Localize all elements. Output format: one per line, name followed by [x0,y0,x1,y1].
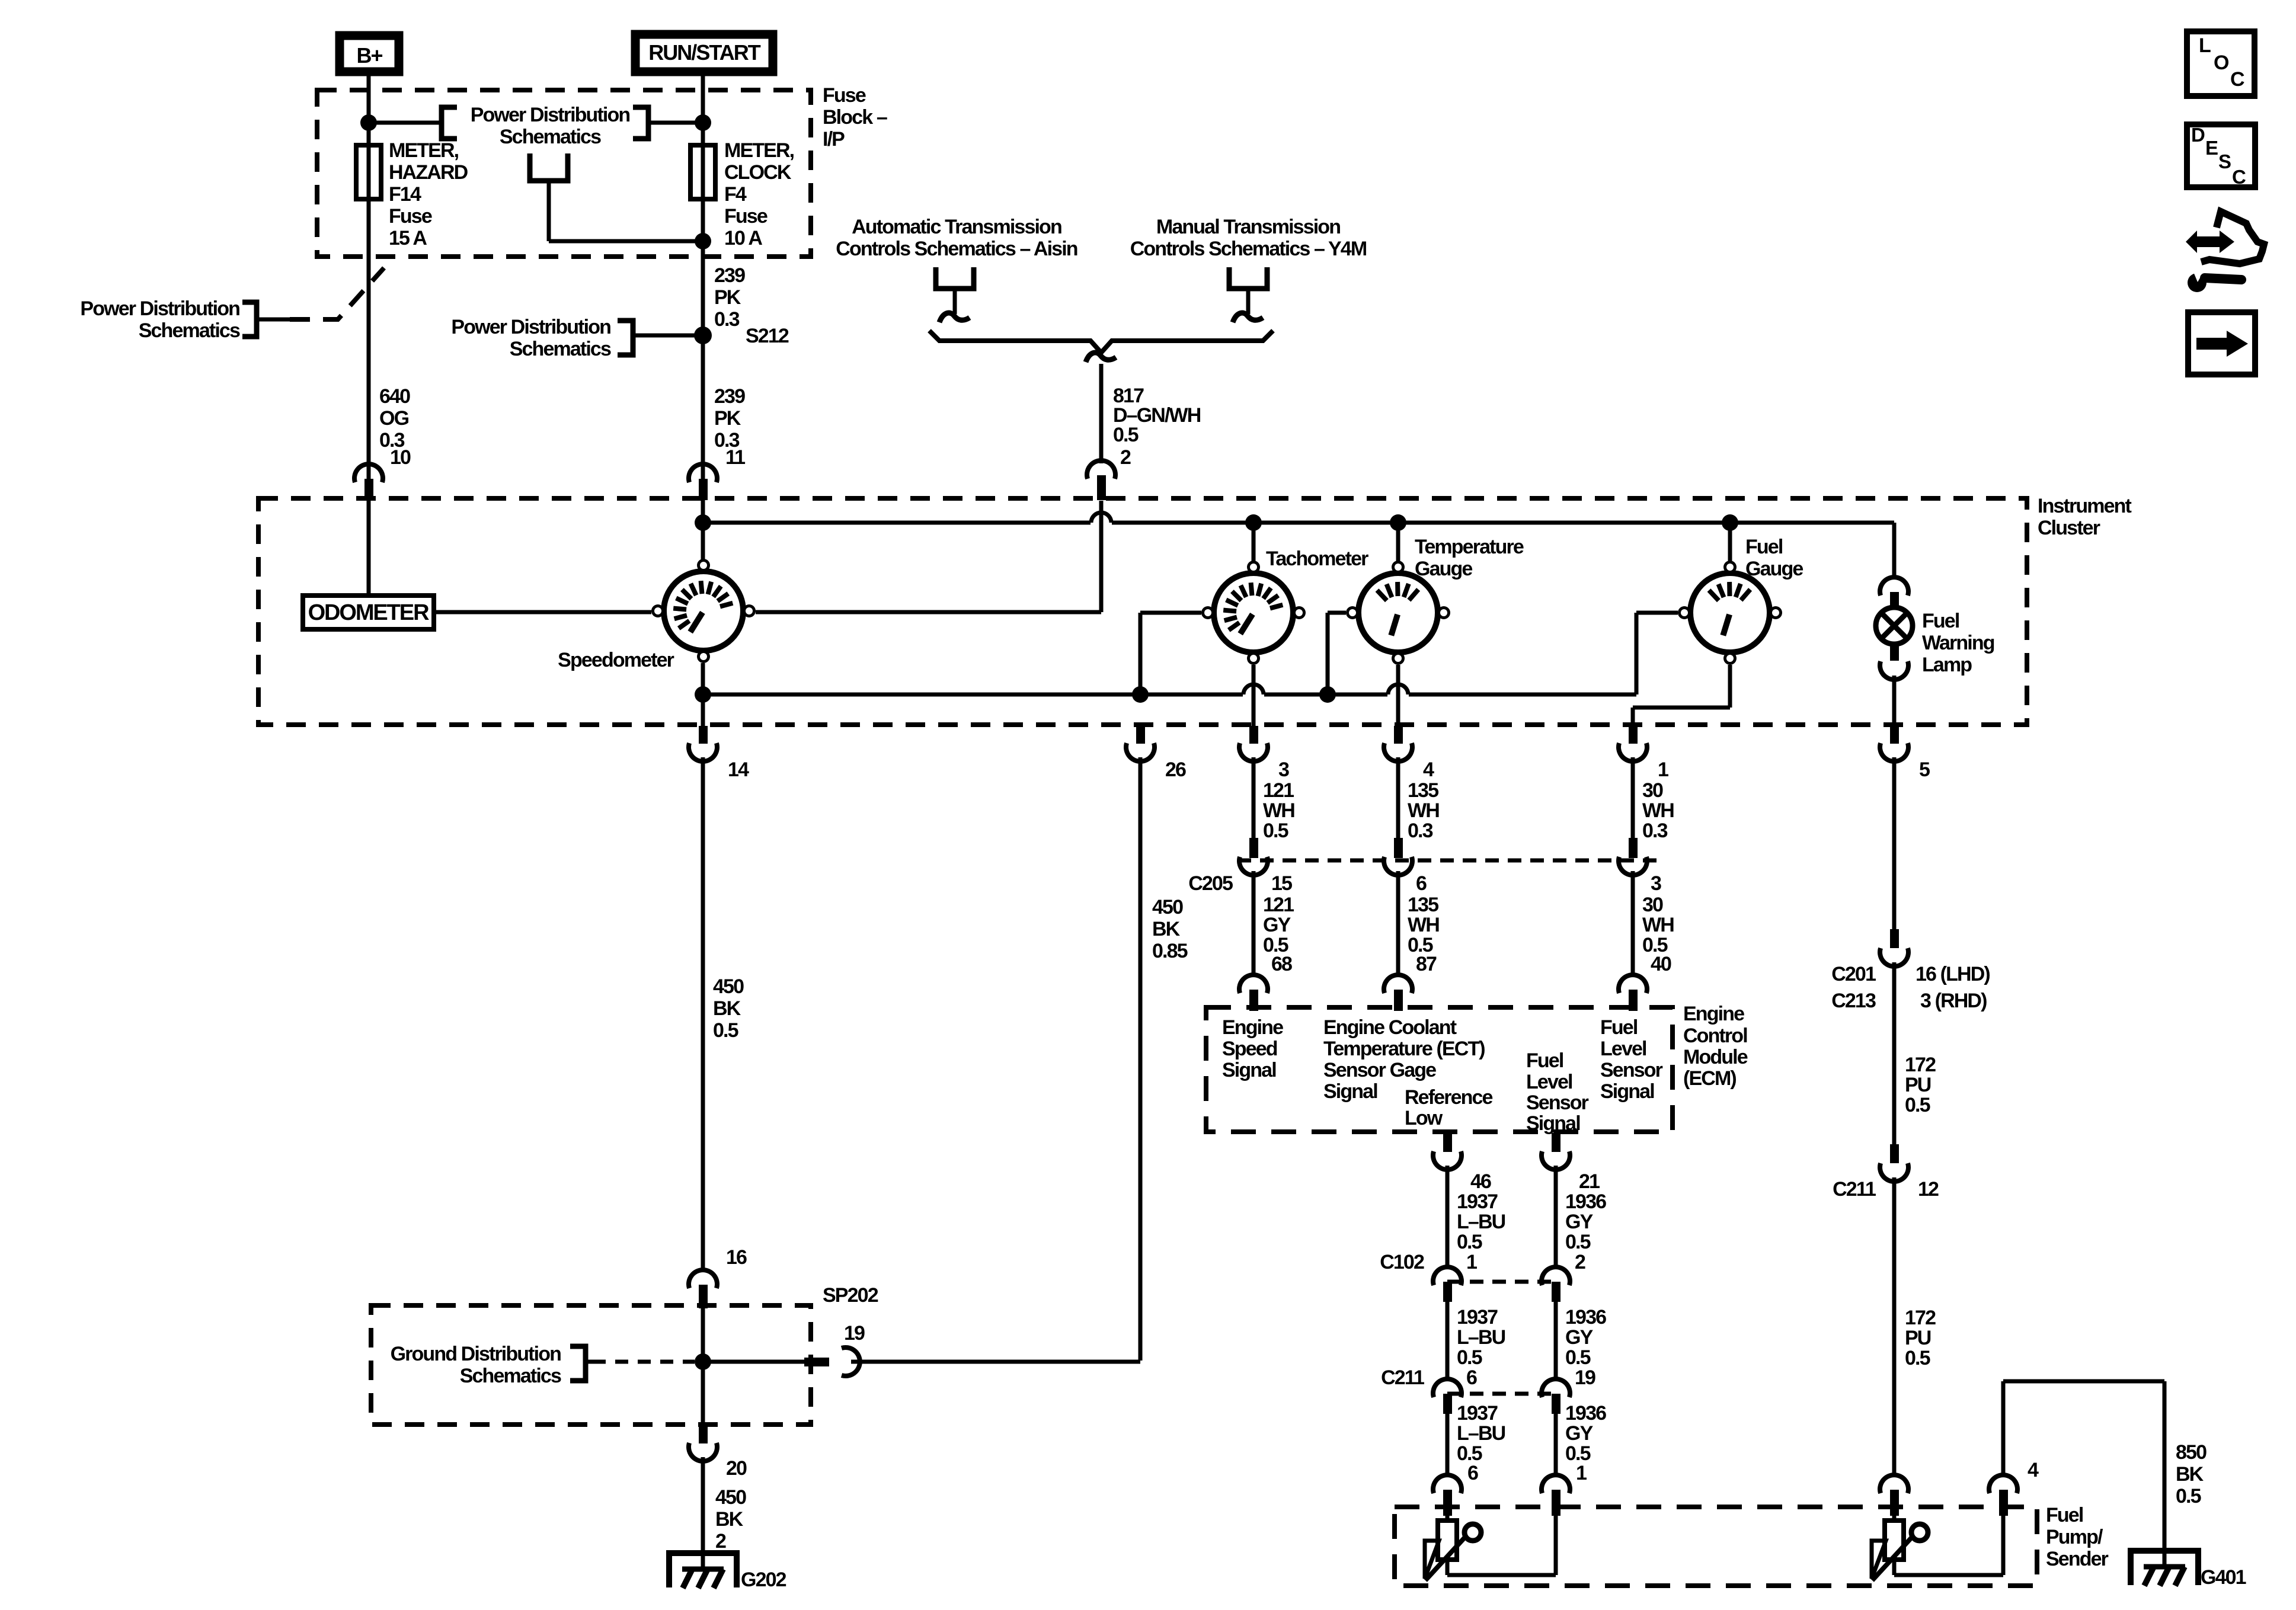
svg-text:ODOMETER: ODOMETER [308,600,429,625]
svg-text:0.85: 0.85 [1152,940,1188,962]
svg-text:Schematics: Schematics [139,319,240,342]
svg-text:Speedometer: Speedometer [558,649,674,671]
node temp feed [1390,514,1406,531]
wire stub from bracket [254,318,290,322]
svg-text:OG: OG [379,407,409,430]
svg-text:0.5: 0.5 [1263,820,1288,842]
svg-text:HAZARD: HAZARD [389,161,468,184]
svg-text:0.5: 0.5 [1113,424,1139,446]
ground G401 [2131,1551,2198,1585]
gauge fuel [1690,573,1770,652]
wire 450 BK 2 to ground [701,1457,705,1569]
svg-text:Sensor: Sensor [1600,1059,1663,1081]
engine control module ECM dashed box [1206,1007,1673,1132]
wire 1937 L-BU segment 3 [1446,1414,1450,1477]
svg-text:239: 239 [714,385,745,408]
svg-text:PU: PU [1905,1327,1931,1349]
svg-text:1936: 1936 [1565,1306,1606,1329]
wire temp drop to C205 [1396,757,1400,840]
svg-text:C102: C102 [1380,1251,1424,1273]
node B+ fuse feed junction [360,114,377,131]
svg-text:1: 1 [1576,1462,1587,1484]
svg-text:30: 30 [1642,779,1663,802]
wire inside SP202 [701,1305,705,1425]
svg-text:1937: 1937 [1457,1306,1498,1329]
svg-text:WH: WH [1642,799,1674,822]
svg-text:450: 450 [713,975,744,998]
icon forward arrow box [2188,312,2255,375]
fuse F4 METER, CLOCK 10A [690,145,715,199]
wire pin 19 across to tach drop [851,1360,1140,1364]
svg-text:C205: C205 [1188,872,1233,895]
wire 172 PU to fuel pump/sender [1892,1177,1897,1477]
ground G202 [669,1553,737,1587]
svg-text:Lamp: Lamp [1922,654,1972,676]
svg-text:87: 87 [1416,953,1437,975]
svg-text:Instrument: Instrument [2038,495,2132,517]
svg-text:Sensor Gage: Sensor Gage [1323,1059,1436,1081]
power box RUN/START [635,34,773,72]
bracket below PDS top label with stem [530,153,568,181]
svg-text:BK: BK [2176,1463,2204,1486]
svg-text:121: 121 [1263,779,1294,802]
svg-text:172: 172 [1905,1307,1936,1329]
bracket below Y4M label [1229,267,1267,289]
svg-text:450: 450 [1152,896,1183,918]
wire 121 GY 0.5 [1252,871,1256,976]
connector pin 16 into SP202 [689,1270,717,1288]
svg-text:6: 6 [1416,872,1427,895]
wire 135 WH 0.5 [1396,871,1400,976]
wire 1936 GY segment 3 [1554,1414,1558,1477]
svg-text:C: C [2230,68,2244,91]
svg-text:C211: C211 [1833,1178,1876,1201]
svg-text:C211: C211 [1381,1366,1424,1389]
svg-text:BK: BK [1152,918,1181,940]
svg-text:Temperature: Temperature [1415,536,1524,558]
connector ECM entry at x=2115 [1239,975,1268,993]
svg-text:Controls Schematics – Y4M: Controls Schematics – Y4M [1130,238,1367,260]
svg-text:Warning: Warning [1922,632,1994,654]
svg-text:L–BU: L–BU [1457,1211,1505,1233]
svg-text:SP202: SP202 [823,1284,878,1307]
wire sender bottom to pin1 drop [1446,1560,1450,1575]
svg-text:Fuel: Fuel [1600,1016,1638,1039]
connector pin 1 cluster exit [1629,726,1638,744]
svg-text:0.5: 0.5 [1905,1347,1930,1369]
svg-text:O: O [2214,52,2229,74]
svg-text:14: 14 [728,758,749,781]
connector pin 10 into cluster [354,464,383,482]
svg-text:1936: 1936 [1565,1402,1606,1425]
wire 1937 L-BU segment 1 [1446,1166,1450,1268]
svg-text:Cluster: Cluster [2038,517,2100,539]
wire top bus corner down to lamp [1892,523,1897,578]
connector pin 20 out of SP202 [699,1425,708,1443]
svg-text:L–BU: L–BU [1457,1326,1505,1349]
wire fuel drop to C205 [1631,757,1635,840]
wire break squiggle Aisin [939,313,970,322]
svg-text:Gauge: Gauge [1745,558,1803,580]
svg-text:1937: 1937 [1457,1402,1498,1425]
svg-text:G202: G202 [741,1569,786,1591]
connector pin 4 cluster exit [1394,726,1403,744]
wire 30 WH 0.5 [1631,871,1635,976]
fuse block I/P dashed box [317,90,811,257]
svg-text:Control: Control [1683,1025,1747,1047]
connector fuel sender entry (172 PU) [1880,1475,1908,1493]
connector pin 14 cluster exit [699,726,708,744]
bracket below Aisin label [936,267,974,289]
bracket right of left PDS label [242,302,257,337]
svg-text:121: 121 [1263,894,1294,916]
svg-text:CLOCK: CLOCK [724,161,792,184]
bracket right of GDS label [570,1346,586,1381]
svg-text:850: 850 [2176,1441,2207,1464]
svg-text:GY: GY [1565,1326,1594,1349]
svg-text:Sender: Sender [2046,1548,2109,1570]
wire RUN/START vertical 239 PK [701,72,705,501]
svg-text:Level: Level [1526,1071,1572,1093]
wire 172 PU to C211 [1892,962,1897,1147]
wire 172 PU pin5 to C201 [1892,757,1897,932]
svg-text:30: 30 [1642,894,1663,916]
svg-text:C201: C201 [1831,963,1876,985]
svg-text:1936: 1936 [1565,1190,1606,1213]
wire temp top [1396,523,1400,562]
power box B+ [340,36,399,72]
svg-text:0.3: 0.3 [1642,820,1668,842]
svg-text:0.5: 0.5 [1457,1346,1482,1369]
svg-text:4: 4 [2028,1459,2039,1481]
wire RUN into speedometer top [701,501,705,560]
svg-text:Signal: Signal [1323,1080,1377,1103]
svg-text:Schematics: Schematics [500,126,601,148]
svg-text:Power Distribution: Power Distribution [471,104,630,126]
connector C205 at x=2755 [1629,838,1638,858]
svg-text:Block –: Block – [823,106,887,129]
gauge speedometer [664,571,743,651]
wire tach top [1252,523,1256,562]
wire 450 BK 0.5 speedometer ground drop [701,757,705,1272]
svg-text:Power Distribution: Power Distribution [80,297,239,320]
svg-text:L–BU: L–BU [1457,1422,1505,1445]
svg-text:PK: PK [714,286,741,309]
connector pin 11 into cluster [689,464,717,482]
svg-text:Controls Schematics – Aisin: Controls Schematics – Aisin [836,238,1077,260]
connector C205 at x=2115 [1249,838,1258,858]
node bottom bus left end [695,686,711,703]
wire Y4M stem [1246,289,1251,314]
svg-text:68: 68 [1271,953,1292,975]
gauge tachometer [1214,573,1293,652]
wire stem to S212 [633,334,703,338]
svg-text:Schematics: Schematics [460,1365,561,1387]
svg-text:Fuel: Fuel [1745,536,1783,558]
fuel pump/sender dashed box [1395,1507,2037,1586]
node top bus left end [695,514,711,531]
svg-text:WH: WH [1263,799,1294,822]
svg-text:F14: F14 [389,183,421,206]
connector pin 19 out of SP202 [804,1358,829,1366]
wire top bus [703,521,1894,525]
svg-text:Signal: Signal [1526,1112,1580,1135]
svg-text:WH: WH [1642,914,1674,936]
wire lamp to pin 5 [1892,676,1897,727]
svg-text:26: 26 [1165,758,1186,781]
svg-text:WH: WH [1408,914,1439,936]
svg-text:3: 3 [1651,872,1661,895]
connector ECM exit at x=2442 [1443,1133,1452,1152]
svg-text:450: 450 [715,1486,746,1509]
svg-text:PU: PU [1905,1074,1931,1096]
fuse F14 METER, HAZARD 15A [356,145,381,199]
svg-text:0.5: 0.5 [1905,1094,1930,1116]
wire fuel bottom jog to pin 1 [1728,665,1732,708]
wire junction to bracket [369,121,439,125]
svg-text:10: 10 [390,446,411,469]
svg-text:19: 19 [844,1322,865,1345]
dashed wire GDS to splice [586,1360,593,1364]
wire 817 D-GN/WH down to pin 2 [1099,364,1104,463]
svg-text:Reference: Reference [1405,1086,1493,1109]
svg-text:12: 12 [1918,1178,1939,1201]
wire sender bottom to pin4 drop [1892,1560,1897,1575]
svg-text:3: 3 [1278,758,1289,781]
svg-text:Fuse: Fuse [823,84,866,107]
svg-text:1: 1 [1658,758,1668,781]
svg-text:Fuel: Fuel [2046,1504,2083,1526]
svg-text:Signal: Signal [1222,1059,1276,1081]
bracket right of middle PDS label [618,321,633,355]
svg-text:135: 135 [1408,779,1438,802]
svg-text:16: 16 [726,1246,747,1269]
svg-text:(ECM): (ECM) [1683,1067,1736,1090]
svg-text:2: 2 [1575,1251,1585,1273]
connector below lamp [1890,644,1899,661]
splice pack SP202 dashed box [371,1305,811,1425]
hop where top bus crosses pin2 riser [1091,518,1112,527]
svg-text:16 (LHD): 16 (LHD) [1916,963,1990,985]
svg-text:GY: GY [1263,914,1291,936]
dashed reference line to B+ wire [290,268,384,319]
svg-text:239: 239 [714,264,745,287]
svg-text:GY: GY [1565,1211,1594,1233]
bracket right of PDS top label [633,107,648,139]
instrument cluster dashed box [258,498,2027,725]
svg-text:0.5: 0.5 [1565,1346,1591,1369]
svg-text:6: 6 [1467,1462,1478,1484]
wire 450 BK 0.85 tach ground drop [1139,757,1143,1361]
hops where bottom bus crosses tach/temp drops [1243,690,1264,699]
svg-text:Ground Distribution: Ground Distribution [391,1343,561,1365]
in-line connector C205 dashed line [1237,859,1659,863]
svg-text:15 A: 15 A [389,227,427,249]
wire 1936 GY segment 1 [1554,1166,1558,1268]
svg-text:Speed: Speed [1222,1038,1277,1060]
svg-text:0.3: 0.3 [714,308,740,331]
node fuel feed [1722,514,1738,531]
svg-text:11: 11 [725,446,745,469]
wire 1936 GY segment 2 [1554,1302,1558,1379]
connector pin 3 cluster exit [1249,726,1258,744]
svg-text:S: S [2218,151,2231,172]
connector C211 (172 PU) [1890,1144,1899,1163]
connector pin 5 cluster exit [1890,726,1899,744]
wire 1937 L-BU segment 2 [1446,1302,1450,1379]
svg-text:Temperature (ECT): Temperature (ECT) [1323,1038,1485,1060]
svg-text:D: D [2191,124,2205,146]
svg-text:BK: BK [715,1508,744,1531]
svg-text:METER,: METER, [724,139,794,162]
wire tach bottom drop [1252,665,1256,728]
svg-text:Power Distribution: Power Distribution [451,316,610,338]
icon repair info (arrow + outline + wrench) [2186,212,2264,292]
svg-text:40: 40 [1651,953,1671,975]
svg-text:GY: GY [1565,1422,1594,1445]
svg-text:Level: Level [1600,1038,1646,1060]
connector C201/C213 [1890,929,1899,948]
fuel level sender (left) [1446,1507,1450,1521]
svg-text:Low: Low [1405,1107,1443,1129]
svg-text:METER,: METER, [389,139,459,162]
connector pin 2 into cluster [1087,460,1115,479]
svg-text:2: 2 [1120,446,1131,469]
connector ECM exit at x=2625 [1552,1133,1560,1152]
svg-text:3 (RHD): 3 (RHD) [1920,990,1987,1012]
svg-text:15: 15 [1271,872,1292,895]
svg-text:1937: 1937 [1457,1190,1498,1213]
node tach-left riser junction [1132,686,1149,703]
ODOMETER box [303,596,434,629]
wire Aisin stem [953,289,957,314]
node PDS stem junction on RUN wire [695,233,711,249]
svg-text:172: 172 [1905,1054,1936,1076]
svg-text:Schematics: Schematics [510,338,611,360]
svg-text:0.5: 0.5 [1457,1231,1482,1253]
node S212 splice [694,327,712,344]
svg-text:Fuse: Fuse [724,205,768,228]
svg-text:1: 1 [1466,1251,1477,1273]
svg-text:2: 2 [715,1530,726,1553]
svg-text:Automatic Transmission: Automatic Transmission [852,216,1061,238]
connector ECM entry at x=2755 [1619,975,1647,993]
gauge temperature [1358,573,1438,652]
svg-text:Signal: Signal [1600,1080,1654,1103]
connector fuel sender entry at x=2625 [1542,1475,1570,1493]
svg-text:G401: G401 [2201,1566,2246,1589]
wire B+ vertical 640 OG [367,72,371,501]
connector pin 26 cluster exit [1136,726,1145,744]
svg-text:21: 21 [1579,1170,1600,1193]
wire pin 4 up and over to G401 [2001,1381,2006,1474]
connector C205 at x=2359 [1394,838,1403,858]
svg-text:20: 20 [726,1457,747,1480]
svg-text:Module: Module [1683,1046,1748,1068]
icon DESC box [2187,124,2255,187]
svg-text:0.5: 0.5 [713,1019,738,1042]
svg-text:S212: S212 [746,325,789,347]
svg-text:C: C [2232,166,2246,188]
connector fuel sender entry at x=2442 [1433,1475,1462,1493]
wire bracket to RUN wire [651,121,703,125]
svg-text:5: 5 [1919,758,1930,781]
svg-text:Fuel: Fuel [1526,1049,1563,1072]
merge brace joining transmission references [929,331,1273,353]
svg-text:10 A: 10 A [724,227,762,249]
wire fuel left to bus end [1636,611,1678,615]
wire speedometer right to pin2 riser [756,610,1101,614]
node SP202 splice junction [695,1353,711,1370]
connector pin 4 fuel sender [1989,1475,2017,1493]
wire bottom bus [703,693,1636,697]
wire temp left to riser [1328,611,1346,615]
svg-text:PK: PK [714,407,741,430]
svg-text:0.5: 0.5 [1565,1231,1591,1253]
svg-text:Sensor: Sensor [1526,1092,1589,1114]
svg-text:F4: F4 [724,183,747,206]
fuel warning lamp [1880,577,1908,596]
svg-text:640: 640 [379,385,410,408]
node temp-left riser junction [1319,686,1336,703]
svg-text:Gauge: Gauge [1415,558,1472,580]
svg-text:Manual Transmission: Manual Transmission [1156,216,1340,238]
svg-text:Tachometer: Tachometer [1266,548,1368,570]
wire tach left to riser [1140,611,1201,615]
svg-text:C213: C213 [1831,990,1876,1012]
svg-text:L: L [2199,34,2211,57]
node tach feed [1245,514,1262,531]
svg-text:0.3: 0.3 [1408,820,1433,842]
wire odometer drop [367,501,371,598]
wire break squiggle Y4M [1233,313,1263,322]
svg-text:Fuse: Fuse [389,205,432,228]
svg-text:I/P: I/P [823,128,845,151]
svg-text:19: 19 [1575,1366,1595,1389]
wire temp bottom drop [1396,665,1400,728]
bracket left of PDS top label [442,107,457,139]
wire odometer to speedometer left [434,610,651,614]
icon LOC box [2187,31,2255,96]
wire break squiggle below merge [1086,353,1116,362]
node RUN fuse feed junction [695,114,711,131]
svg-text:135: 135 [1408,894,1438,916]
wire PDS stem down then right to S-junction [547,181,551,241]
svg-text:Engine: Engine [1222,1016,1283,1039]
svg-text:E: E [2205,137,2218,159]
svg-text:0.5: 0.5 [2176,1485,2201,1507]
wire fuel top [1728,523,1732,562]
svg-text:BK: BK [713,997,741,1020]
svg-text:Engine Coolant: Engine Coolant [1323,1016,1457,1039]
svg-text:4: 4 [1423,758,1434,781]
svg-text:Pump/: Pump/ [2046,1526,2103,1548]
svg-text:WH: WH [1408,799,1439,822]
svg-text:46: 46 [1470,1170,1491,1193]
wire splice to pin 19 [703,1360,806,1364]
svg-text:RUN/START: RUN/START [648,40,760,65]
svg-text:Fuel: Fuel [1922,610,1959,632]
wire tach drop to C205 [1252,757,1256,840]
svg-text:B+: B+ [356,43,382,68]
svg-text:6: 6 [1466,1366,1477,1389]
connector ECM entry at x=2359 [1384,975,1412,993]
fuel level sender (right) [1892,1507,1897,1521]
wire speedometer bottom to bus [701,663,705,727]
svg-text:Engine: Engine [1683,1003,1744,1025]
